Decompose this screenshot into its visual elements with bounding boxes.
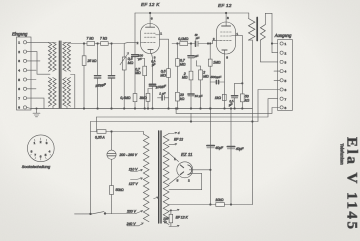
- input connector pin 7: [18, 96, 26, 100]
- tube V1 grid 1 (dashed): [145, 31, 163, 35]
- svg-text:7: 7: [18, 96, 20, 100]
- resistor 7 kOhm (first): [87, 37, 95, 46]
- mains switch: [75, 212, 112, 215]
- input connector pin 1: [18, 41, 26, 45]
- resistor 7 kOhm (second): [100, 37, 108, 46]
- svg-text:2: 2: [188, 178, 190, 182]
- wire secondary top to signal row: [63, 43, 84, 44]
- tube V2 anode: [222, 12, 231, 26]
- tube V1 anode: [146, 12, 155, 27]
- wire left corners into fuse line: [91, 117, 97, 214]
- svg-text:7 kΩ: 7 kΩ: [100, 37, 108, 41]
- output connector pin 6: [280, 88, 287, 92]
- EZ11 filament tap upper: [169, 153, 179, 161]
- wire pin5 stub: [27, 79, 36, 81]
- capacitor 0,1 uF: [228, 96, 238, 109]
- wire V1 cathode down: [152, 54, 156, 85]
- wire EZ11 cathode B+ out: [189, 169, 211, 171]
- input connector pin 4: [18, 69, 26, 73]
- svg-text:EF 12: EF 12: [174, 138, 183, 142]
- svg-text:240 V: 240 V: [126, 222, 137, 226]
- svg-text:127 V: 127 V: [129, 182, 139, 186]
- tube V2 cathode: [222, 50, 227, 54]
- capacitor 250pF (first): [94, 44, 100, 110]
- node junction at 97.6: [97, 43, 99, 45]
- capacitor 5000pF coupling: [195, 33, 213, 46]
- wire primary bottom to bus: [52, 107, 54, 109]
- wire pin8 to ground bus: [27, 107, 31, 108]
- tube V2 grid 2 (dashed): [221, 35, 232, 37]
- wire secondary bottom to output pin 3: [260, 40, 277, 62]
- svg-text:220 V: 220 V: [126, 210, 137, 214]
- resistor 3 MOhm cathode bias: [140, 89, 153, 110]
- svg-text:1: 1: [285, 42, 287, 46]
- EZ11 anode plates: [180, 165, 183, 175]
- svg-text:1kΩ: 1kΩ: [215, 96, 222, 100]
- resistor 1 kOhm cathode bias V2: [215, 94, 226, 100]
- socket pins top arc: [34, 138, 48, 145]
- power transformer secondary: [163, 134, 169, 225]
- tube V1 grid 2 (dashed): [145, 36, 156, 38]
- svg-text:500μμF: 500μμF: [211, 75, 223, 79]
- ground bus wire: [31, 108, 252, 110]
- capacitor 100uuF cathode: [149, 84, 167, 109]
- wire V2 screen to 50k: [236, 35, 243, 94]
- svg-text:MΩ: MΩ: [160, 73, 166, 77]
- B+ rail top: [135, 12, 249, 14]
- output connector pin 2: [280, 51, 287, 55]
- svg-text:EF 12 K: EF 12 K: [141, 2, 160, 7]
- output transformer secondary: [260, 25, 265, 40]
- svg-text:3: 3: [285, 61, 287, 65]
- wire signal row to volume pot: [108, 43, 124, 45]
- svg-text:2: 2: [137, 41, 139, 45]
- socket pins bottom arc: [30, 149, 51, 160]
- fuse 0,25 A: [91, 130, 144, 140]
- output transformer core: [256, 18, 258, 41]
- resistor 2 MOhm: [182, 71, 193, 94]
- wire primary bottom feed (B+) long vertical: [249, 40, 253, 204]
- tube V1 EF12K envelope: [141, 24, 160, 54]
- svg-text:8: 8: [285, 106, 287, 110]
- capacitor 500uuF grid-cathode: [210, 75, 224, 84]
- svg-text:110 V: 110 V: [129, 167, 138, 171]
- svg-text:5: 5: [18, 78, 20, 82]
- svg-text:200 - 260 V: 200 - 260 V: [119, 153, 138, 157]
- svg-text:1: 1: [174, 157, 176, 161]
- EZ11 pin2 return loop: [169, 173, 202, 189]
- svg-text:MΩ: MΩ: [203, 74, 209, 78]
- svg-text:6: 6: [285, 88, 287, 92]
- capacitor 10 uF: [188, 94, 204, 109]
- barretter 200-260 V: [107, 131, 138, 186]
- svg-text:0,25 A: 0,25 A: [95, 136, 105, 140]
- wire to output pin 2: [271, 43, 278, 53]
- svg-text:6: 6: [18, 87, 20, 91]
- wire B+ rail to output transformer: [248, 13, 250, 19]
- input connector pin 3: [18, 59, 26, 63]
- svg-text:2: 2: [285, 51, 287, 55]
- tube V2 grid 3 (dashed) with lead left: [213, 37, 232, 41]
- svg-text:Sockelschaltung: Sockelschaltung: [22, 164, 51, 169]
- resistor 0,4 MOhm: [120, 94, 137, 110]
- svg-text:4: 4: [285, 70, 287, 74]
- output connector pin 7: [280, 97, 287, 101]
- filter line with 40uF (second): [230, 108, 232, 206]
- rectifier EZ11 envelope: [177, 162, 193, 178]
- tap arrow 240 V: [126, 222, 144, 226]
- output connector pin 5: [274, 79, 287, 83]
- svg-text:Eingang: Eingang: [12, 32, 28, 37]
- potentiometer 0,5 MOhm volume: [120, 44, 134, 110]
- node junction at 111.5: [111, 43, 113, 45]
- svg-text:7 kΩ: 7 kΩ: [87, 37, 95, 41]
- tube V2 EF12 envelope: [217, 22, 236, 54]
- resistor 25 kOhm: [82, 44, 97, 110]
- output connector St2 body: [278, 40, 293, 111]
- svg-text:50kΩ: 50kΩ: [116, 188, 124, 192]
- wire secondary bottom to bus: [66, 107, 68, 109]
- resistor 50 kOhm bleeder: [110, 186, 124, 214]
- svg-text:8: 8: [227, 16, 229, 20]
- wire T-drop at 191: [190, 113, 192, 122]
- svg-text:EF 12: EF 12: [218, 3, 232, 8]
- svg-text:5: 5: [177, 179, 179, 183]
- node secondary-top junction: [83, 43, 85, 45]
- svg-text:3: 3: [18, 59, 20, 63]
- svg-text:MΩ: MΩ: [182, 76, 188, 80]
- EZ11 cathode arc: [188, 165, 192, 175]
- svg-text:6: 6: [151, 16, 153, 20]
- svg-text:Ela V 1145: Ela V 1145: [343, 137, 359, 232]
- wire pin6 stub: [27, 88, 36, 90]
- output connector pin 3: [280, 60, 287, 64]
- wire nested line y117 to pin7: [97, 99, 278, 117]
- svg-text:MΩ: MΩ: [135, 71, 141, 75]
- capacitor 1uF: [158, 92, 169, 100]
- wire pin7 to ground bus: [27, 98, 44, 108]
- svg-text:40μF: 40μF: [215, 146, 224, 150]
- wire grid2 input from pot: [125, 41, 137, 44]
- input transformer core: [58, 41, 60, 108]
- input connector St1 body: [17, 37, 32, 110]
- filter line with 40uF (first): [210, 108, 212, 206]
- capacitor 40uF (first): [207, 146, 224, 150]
- svg-text:3MΩ: 3MΩ: [140, 96, 148, 100]
- node junction 191: [190, 43, 192, 56]
- ground symbol: [33, 108, 40, 117]
- svg-text:kΩ: kΩ: [245, 98, 250, 102]
- wire cathode network tie: [235, 83, 244, 96]
- svg-text:10 μF: 10 μF: [195, 94, 204, 98]
- tube V1 grid 3 (dashed) with lead left: [137, 41, 156, 45]
- svg-text:2: 2: [18, 50, 20, 54]
- capacitor to ground at 191: [188, 54, 200, 71]
- resistor 0,5 MOhm screen divider: [160, 69, 170, 110]
- resistor 2 MOhm (second): [197, 44, 210, 110]
- heater tap EF12 (upper): [169, 131, 183, 145]
- wire pin4 stub: [27, 69, 36, 71]
- node junction 177.4: [177, 43, 179, 59]
- svg-text:8: 8: [18, 106, 20, 110]
- svg-text:7: 7: [285, 97, 287, 101]
- wire V2 cathode down: [224, 54, 229, 109]
- EZ11 filament tap lower: [169, 176, 179, 184]
- wire V1 screen to divider: [160, 39, 169, 68]
- resistor 0,7 MOhm grid leak: [135, 59, 146, 110]
- wire secondary top to output pin 1: [265, 13, 277, 43]
- power transformer Tr3 primary: [143, 134, 149, 222]
- resistor 0,7 MOhm (second stage top): [176, 59, 186, 93]
- svg-text:MΩ: MΩ: [180, 62, 186, 66]
- svg-text:1: 1: [160, 31, 162, 35]
- svg-text:4: 4: [178, 131, 180, 135]
- input connector pin 8: [18, 106, 26, 110]
- input connector pin 2: [18, 50, 26, 54]
- input connector pin 6: [18, 87, 26, 91]
- socket diagram circle: [27, 135, 54, 162]
- input transformer Tr1 primary winding (two sections, two columns): [48, 43, 51, 72]
- svg-text:kΩ: kΩ: [180, 97, 185, 101]
- wire pin2 L to primary mid tap: [27, 52, 50, 75]
- output transformer Tr2 primary: [249, 19, 255, 41]
- svg-text:1: 1: [18, 41, 20, 45]
- bottom rail: [169, 204, 252, 206]
- wire bus jog to pin 8: [175, 108, 279, 114]
- wire anode row y43.5 to 0,1M: [172, 43, 180, 45]
- svg-text:EF 12 K: EF 12 K: [176, 216, 189, 220]
- power transformer core: [159, 131, 161, 223]
- input transformer secondary winding (two sections, two columns): [67, 43, 70, 72]
- tap arrow on primary lower: [154, 197, 159, 199]
- wire between 7k resistors: [95, 43, 101, 45]
- svg-text:0,1MΩ: 0,1MΩ: [178, 37, 189, 41]
- svg-text:10kΩ: 10kΩ: [215, 198, 223, 202]
- tap arrows 110 V / 127 V: [129, 167, 143, 171]
- resistor 1 MOhm grid leak V2: [208, 43, 221, 110]
- wire switch to 220V tap: [112, 210, 143, 214]
- output connector pin 4: [274, 70, 287, 74]
- resistor 0,1 MOhm coupling: [178, 37, 195, 45]
- input connector pin 5: [18, 78, 26, 82]
- svg-text:EZ 11: EZ 11: [181, 152, 193, 157]
- node junction 208: [207, 43, 209, 45]
- svg-text:4: 4: [18, 69, 20, 73]
- svg-text:40μF: 40μF: [236, 147, 245, 151]
- heater tap EF12K lower: [169, 225, 179, 227]
- svg-text:1MΩ: 1MΩ: [213, 60, 221, 64]
- wire coupling to V2 grid: [213, 41, 217, 44]
- wire pin1 to transformer primary top: [27, 41, 56, 43]
- tube V2 grid 1 (dashed): [221, 32, 239, 36]
- svg-text:5: 5: [285, 79, 287, 83]
- wire rail drop x135 with screen bypass cap: [132, 13, 144, 94]
- wire signal row segment: [84, 43, 87, 45]
- output connector pin 8: [280, 106, 287, 110]
- svg-text:25 kΩ: 25 kΩ: [87, 59, 97, 63]
- capacitor 250pF (second): [108, 44, 114, 110]
- tube V1 cathode: [148, 50, 153, 54]
- resistor 10 kOhm: [215, 198, 224, 206]
- svg-text:2: 2: [213, 37, 215, 41]
- svg-text:Ausgang: Ausgang: [274, 33, 292, 38]
- resistor 20 kOhm: [176, 92, 185, 109]
- output connector pin 1: [280, 42, 287, 46]
- svg-text:3: 3: [226, 55, 228, 59]
- wire pin3 stub: [27, 60, 40, 62]
- capacitor 40uF (second): [227, 147, 244, 151]
- heater tap EF12K with 100 Ohm: [163, 209, 188, 226]
- svg-text:MΩ: MΩ: [128, 61, 134, 65]
- svg-text:0,4MΩ: 0,4MΩ: [120, 96, 131, 100]
- wire secondary mid tap to bus: [71, 75, 75, 109]
- wire nested line y121.5 to Tr2 primary feed: [91, 90, 280, 123]
- resistor 50 kOhm: [240, 94, 249, 109]
- svg-text:1 μF: 1 μF: [159, 92, 166, 96]
